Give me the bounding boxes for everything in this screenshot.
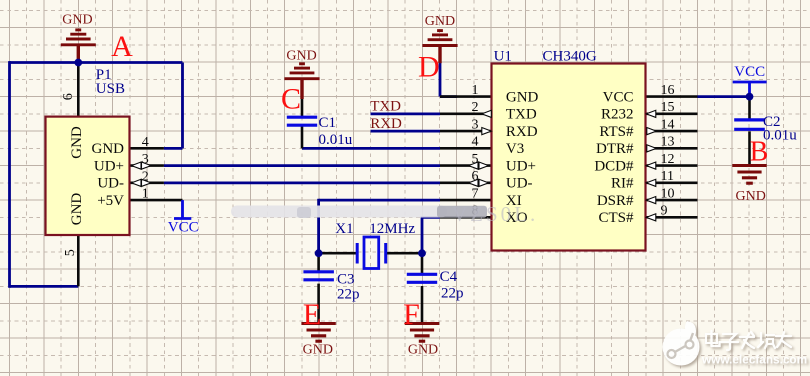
svg-text:0.01u: 0.01u — [763, 128, 797, 144]
svg-text:TXD: TXD — [506, 107, 537, 123]
svg-text:USB: USB — [96, 81, 125, 97]
svg-text:15: 15 — [661, 100, 675, 115]
svg-text:7: 7 — [472, 186, 479, 201]
svg-text:CTS#: CTS# — [598, 210, 634, 226]
svg-text:12MHz: 12MHz — [369, 221, 415, 237]
svg-text:22p: 22p — [441, 286, 464, 302]
svg-text:RXD: RXD — [370, 116, 402, 132]
svg-text:UD-: UD- — [506, 176, 533, 192]
svg-text:9: 9 — [661, 204, 668, 219]
svg-text:UD-: UD- — [97, 176, 124, 192]
svg-text:10: 10 — [661, 186, 675, 201]
svg-text:R232: R232 — [601, 107, 634, 123]
svg-text:GND: GND — [69, 193, 85, 226]
svg-text:DTR#: DTR# — [596, 141, 634, 157]
svg-text:CH340G: CH340G — [543, 49, 597, 65]
svg-text:5: 5 — [472, 152, 479, 167]
svg-text:GND: GND — [408, 343, 438, 358]
svg-text:VZS0L.: VZS0L. — [452, 202, 538, 226]
svg-text:GND: GND — [286, 48, 316, 63]
svg-text:4: 4 — [142, 135, 149, 150]
svg-text:GND: GND — [92, 141, 125, 157]
svg-text:C3: C3 — [337, 272, 355, 288]
svg-text:UD+: UD+ — [506, 158, 536, 174]
svg-text:11: 11 — [661, 169, 674, 184]
svg-text:VCC: VCC — [168, 220, 199, 236]
svg-text:GND: GND — [69, 126, 85, 159]
svg-text:DSR#: DSR# — [597, 193, 634, 209]
svg-text:4: 4 — [472, 135, 479, 150]
svg-text:RTS#: RTS# — [599, 124, 634, 140]
svg-text:UD+: UD+ — [94, 158, 124, 174]
svg-text:2: 2 — [472, 100, 479, 115]
svg-text:0.01u: 0.01u — [319, 132, 353, 148]
svg-text:22p: 22p — [337, 287, 360, 303]
svg-text:D: D — [418, 51, 440, 84]
svg-text:12: 12 — [661, 152, 675, 167]
svg-text:C1: C1 — [319, 115, 337, 131]
svg-text:RI#: RI# — [611, 176, 634, 192]
svg-text:2: 2 — [142, 169, 149, 184]
svg-text:E: E — [303, 298, 321, 331]
svg-text:RXD: RXD — [506, 124, 538, 140]
svg-text:1: 1 — [142, 187, 149, 202]
svg-text:F: F — [403, 298, 420, 331]
svg-text:GND: GND — [62, 13, 92, 28]
svg-text:+5V: +5V — [97, 193, 124, 209]
svg-text:C: C — [281, 83, 301, 116]
svg-text:U1: U1 — [494, 48, 512, 64]
svg-text:V3: V3 — [506, 141, 524, 157]
svg-text:C4: C4 — [440, 269, 458, 285]
svg-text:GND: GND — [303, 343, 333, 358]
svg-text:X1: X1 — [335, 221, 353, 237]
svg-text:3: 3 — [142, 152, 149, 167]
svg-text:16: 16 — [661, 83, 675, 98]
svg-text:14: 14 — [661, 117, 675, 132]
svg-text:DCD#: DCD# — [594, 158, 634, 174]
svg-text:TXD: TXD — [370, 99, 401, 115]
svg-text:www.elecfans.com: www.elecfans.com — [701, 353, 807, 367]
svg-text:1: 1 — [472, 83, 479, 98]
svg-text:6: 6 — [61, 93, 76, 100]
svg-text:VCC: VCC — [603, 89, 634, 105]
svg-text:3: 3 — [472, 117, 479, 132]
svg-text:A: A — [111, 30, 133, 63]
svg-text:GND: GND — [736, 189, 766, 204]
svg-text:6: 6 — [472, 169, 479, 184]
svg-text:13: 13 — [661, 135, 675, 150]
svg-text:GND: GND — [425, 14, 455, 29]
svg-text:GND: GND — [506, 89, 539, 105]
svg-text:5: 5 — [63, 249, 78, 256]
svg-text:VCC: VCC — [734, 64, 765, 80]
